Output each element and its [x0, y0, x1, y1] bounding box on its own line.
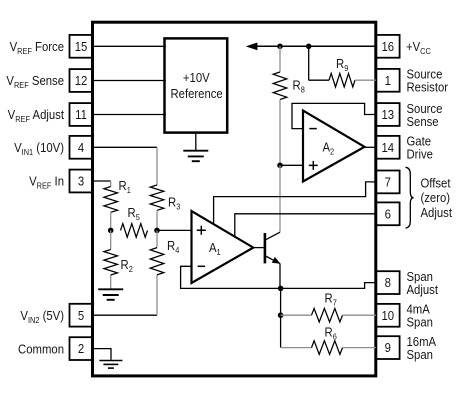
pin 1 box [376, 69, 400, 92]
op-amp A1 [192, 211, 254, 283]
resistor R3 [150, 185, 164, 210]
wire A2 output to pin14 [365, 146, 376, 148]
pin 12 box [70, 69, 93, 92]
svg-text:Resistor: Resistor [407, 80, 449, 95]
junction dot R7 [278, 312, 284, 318]
wire A2 feedback / pin13 [292, 103, 376, 128]
svg-text:3: 3 [78, 174, 85, 189]
svg-text:VIN2 (5V): VIN2 (5V) [20, 308, 64, 325]
wire A1 plus input [157, 229, 192, 231]
transistor collector [266, 232, 281, 240]
svg-text:12: 12 [75, 74, 88, 89]
transistor Q1 base bar [264, 233, 267, 263]
resistor R4 [156, 230, 158, 247]
resistor R9 [309, 46, 329, 80]
svg-text:5: 5 [78, 308, 85, 323]
wire A1 output to base [253, 247, 263, 249]
svg-text:1: 1 [385, 73, 392, 88]
svg-text:2: 2 [78, 342, 85, 357]
arrow on Vcc rail [246, 43, 258, 51]
svg-text:(zero): (zero) [421, 191, 451, 206]
svg-text:Span: Span [407, 347, 433, 362]
pin 4 box [70, 136, 93, 159]
wire pin15 to reference [94, 45, 166, 47]
wire pin11 to reference [94, 114, 166, 116]
svg-text:6: 6 [385, 207, 392, 222]
wire pin2 to ground [94, 349, 111, 360]
wire A2 plus input [280, 164, 303, 166]
svg-text:+10V: +10V [183, 71, 210, 86]
wire pin7 to A1 [214, 182, 376, 225]
resistor R5 [121, 224, 148, 238]
pin 5 box [70, 304, 93, 327]
svg-text:14: 14 [381, 140, 394, 155]
junction dot R5 left [108, 228, 114, 234]
junction dot A2 plus [277, 163, 283, 169]
svg-text:Common: Common [18, 342, 64, 357]
pin 7 box [376, 171, 400, 194]
pin 8 box [376, 271, 400, 294]
+10V Reference block [165, 38, 228, 132]
ground (common pin2) [99, 360, 122, 362]
A2 minus sign [309, 128, 317, 130]
pin 6 box [376, 202, 400, 225]
svg-text:10: 10 [381, 308, 394, 323]
A2 plus sign [309, 161, 318, 170]
wire pin6 to A1 [235, 214, 376, 238]
junction dot Vcc/R9 [306, 44, 312, 50]
svg-text:7: 7 [385, 175, 392, 190]
svg-text:Drive: Drive [407, 147, 434, 162]
pin 15 box [70, 35, 93, 58]
wire pin12 to reference [94, 80, 166, 82]
wire A1 feedback to pin8 [181, 266, 376, 288]
svg-text:8: 8 [385, 276, 392, 291]
wire pin5 to R4 [94, 314, 157, 316]
pin 9 box [376, 336, 400, 359]
svg-text:Adjust: Adjust [421, 205, 453, 220]
pin 3 box [70, 170, 93, 193]
A1 plus sign [197, 226, 206, 235]
wire collector riser [279, 165, 281, 232]
resistor R6 [281, 347, 312, 349]
transistor emitter with arrow [266, 256, 281, 264]
pin 10 box [376, 304, 400, 327]
resistor R7 [281, 314, 312, 316]
resistor R2 [110, 230, 112, 249]
pin 2 box [70, 337, 93, 360]
A1 minus sign [198, 265, 206, 267]
wire junction down [280, 288, 282, 347]
ground (reference) [195, 133, 197, 150]
svg-text:Offset: Offset [421, 176, 452, 191]
pin 13 box [376, 103, 400, 126]
brace offset adjust [406, 167, 414, 228]
svg-text:Span: Span [407, 315, 433, 330]
ground (R2) [110, 275, 112, 289]
svg-text:VIN1 (10V): VIN1 (10V) [14, 140, 64, 157]
svg-text:Adjust: Adjust [407, 282, 439, 297]
junction dot R5 right [154, 228, 160, 234]
wire pin4 to R3 [94, 146, 157, 148]
svg-text:13: 13 [381, 108, 394, 123]
main IC outline box [93, 22, 376, 376]
svg-text:Sense: Sense [407, 114, 439, 129]
svg-text:Reference: Reference [170, 86, 223, 101]
svg-text:15: 15 [75, 39, 88, 54]
junction dot Vcc/R8 [277, 44, 283, 50]
pin 14 box [376, 136, 400, 159]
junction dot emitter/feedback [278, 286, 284, 292]
pin 16 box [376, 35, 400, 58]
svg-text:16: 16 [381, 39, 394, 54]
wire pin3 to R1 [94, 180, 111, 182]
op-amp A2 [303, 111, 365, 182]
resistor R1 [104, 187, 118, 213]
svg-text:11: 11 [75, 108, 87, 123]
pin 11 box [70, 103, 93, 126]
svg-text:4: 4 [78, 140, 85, 155]
+Vcc rail wire [256, 45, 376, 47]
resistor R8 [279, 46, 281, 72]
svg-text:9: 9 [385, 341, 392, 356]
wire emitter down [279, 264, 281, 289]
